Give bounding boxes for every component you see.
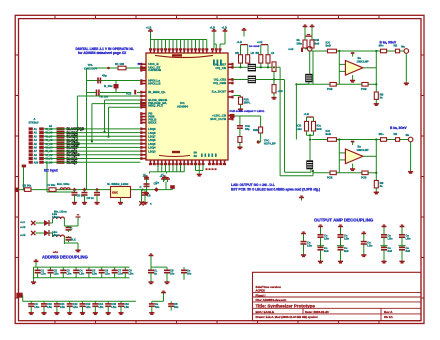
- svg-text:LB 30z: LB 30z: [23, 183, 32, 187]
- supply symbol row A: [34, 260, 39, 267]
- supply label +Ax: [53, 250, 59, 254]
- svg-text:R2B: R2B: [253, 128, 258, 132]
- svg-text:Full scale output = LBrd.: Full scale output = LBrd.: [230, 109, 265, 113]
- capacitor CB3: [54, 301, 66, 310]
- svg-text:A: A: [34, 117, 36, 121]
- wire: IC analog ground pins: [196, 165, 204, 171]
- IC1 right pin names: [210, 62, 227, 121]
- svg-text:6n8: 6n8: [406, 249, 411, 253]
- resistor R19 on clock rail: [47, 183, 57, 191]
- resistor feedback 1: [327, 171, 336, 179]
- svg-text:10u: 10u: [174, 306, 179, 309]
- capacitor CB4: [67, 301, 79, 310]
- wire: data bus lines to IC: [44, 129, 141, 162]
- svg-text:LBn: LBn: [60, 306, 65, 309]
- svg-text:PCB: PCB: [361, 175, 367, 179]
- title block text fixed: [256, 293, 266, 297]
- resistor feedback 2: [361, 83, 368, 91]
- wire: TP row 1: [87, 67, 141, 69]
- supply symbol DVDD: [222, 26, 228, 34]
- svg-text:BB: BB: [235, 52, 239, 55]
- pin: supply входа row B: [16, 293, 22, 298]
- svg-text:for AD9854 datasheet page XX: for AD9854 datasheet page XX: [78, 51, 127, 55]
- capacitor decoupling lower: [338, 246, 350, 259]
- wire: row 2 reference: [87, 80, 141, 82]
- wire: regulator rail top: [35, 219, 52, 223]
- wire: decoupling mid link: [337, 245, 344, 247]
- wire: ground rail stub left: [150, 172, 167, 174]
- wire: top supply rail to IC top pins: [151, 34, 207, 48]
- capacitor decoupling single: [301, 240, 313, 252]
- svg-text:Ma: Ma: [406, 134, 410, 137]
- resistor at output pad: [394, 43, 400, 52]
- svg-text:LBn: LBn: [67, 272, 72, 275]
- svg-text:BUF_CLTB: BUF_CLTB: [210, 117, 227, 121]
- ground decoupling column: [399, 259, 404, 263]
- resistor series input: [326, 129, 337, 141]
- ground decoupling single: [361, 253, 366, 257]
- resistor network labels: [67, 127, 85, 164]
- resistor R3 series 30R: [23, 183, 32, 191]
- supply stub op-amp: [351, 141, 355, 145]
- capacitor decoupling single: [361, 240, 373, 252]
- resistor feedback 2: [361, 171, 368, 179]
- wire: row 3: [87, 92, 141, 94]
- junction at op-amp input: [338, 138, 377, 140]
- wire: pad ground branch: [408, 142, 413, 173]
- svg-text:39: 39: [194, 154, 198, 158]
- capacitor C2: [97, 90, 109, 99]
- capacitor C11: [66, 236, 77, 242]
- svg-text:LBn: LBn: [388, 237, 393, 241]
- svg-text:RB: RB: [394, 132, 398, 136]
- svg-text:+LB: +LB: [257, 40, 262, 44]
- supply symbol decoupling column: [338, 225, 343, 235]
- supply symbol VCC top-left of IC: [146, 26, 153, 34]
- svg-text:M4+: M4+: [379, 132, 385, 136]
- capacitor CA3: [60, 267, 72, 278]
- ground below CA10: [164, 280, 169, 284]
- capacitor C10: [66, 226, 73, 232]
- wire: IOUT1 to transformer T1: [233, 63, 247, 68]
- supply stub op-amp: [351, 52, 355, 56]
- capacitor CA5: [86, 267, 98, 278]
- wire: data line upper L4: [107, 107, 140, 138]
- capacitor CB8: [118, 301, 130, 310]
- svg-text:OQ_CB: OQ_CB: [215, 66, 227, 70]
- supply symbol decoupling column: [318, 225, 323, 235]
- wire: decoupling mid link: [398, 245, 405, 247]
- capacitor CB9: [149, 301, 160, 310]
- IC1 left pin names: [148, 62, 168, 153]
- ground decoupling single: [301, 253, 306, 257]
- svg-text:10u: 10u: [170, 272, 175, 275]
- wire: clock rail: [19, 189, 172, 191]
- pin pad VOUT2: [230, 114, 261, 126]
- svg-text:LBQ5: LBQ5: [148, 142, 156, 146]
- wire: regulator rail mid: [35, 217, 78, 248]
- title block text drawn row: [256, 315, 318, 319]
- blue output label: [390, 126, 408, 130]
- wire: R16/R17 join to rail: [307, 131, 314, 160]
- svg-text:10u: 10u: [187, 272, 192, 275]
- capacitor decoupling upper: [399, 234, 411, 248]
- capacitor CA8: [122, 267, 134, 278]
- capacitor C1 43p: [98, 73, 107, 83]
- svg-text:+Lx: +Lx: [20, 220, 25, 224]
- blue attribute mark at row1 pin: [138, 63, 141, 65]
- svg-text:LBQ7: LBQ7: [148, 135, 156, 139]
- svg-text:LBn: LBn: [111, 306, 116, 309]
- capacitor C6 to ground: [82, 190, 95, 201]
- wire: data line upper L1: [76, 96, 140, 147]
- svg-text:CJPMUB: CJPMUB: [148, 68, 162, 72]
- svg-text:LBx: LBx: [297, 127, 303, 131]
- capacitor C7 to ground: [94, 190, 100, 201]
- wire: decoupling mid link: [380, 245, 387, 247]
- wire: bus drop to clock rail left: [22, 165, 26, 191]
- wire: op-amp input rail: [312, 139, 409, 141]
- svg-text:LBn: LBn: [124, 306, 129, 309]
- transformer T1: [248, 64, 256, 72]
- svg-text:LBQ3: LBQ3: [148, 149, 156, 153]
- svg-text:ADDR53 DECOUPLING: ADDR53 DECOUPLING: [42, 255, 88, 260]
- heading OUTPUT AMP DECOUPLING: [314, 218, 374, 223]
- wire: pad to transformer T4: [309, 51, 311, 74]
- svg-text:Ma: Ma: [401, 45, 405, 48]
- ground below CA9: [148, 280, 153, 284]
- svg-text:BB: BB: [256, 52, 260, 55]
- capacitor CA1: [35, 267, 47, 278]
- wire: op-amp output: [363, 140, 376, 181]
- svg-text:LBn: LBn: [41, 272, 46, 275]
- resistor R7: [266, 52, 274, 63]
- svg-text:6n8: 6n8: [324, 249, 329, 253]
- svg-text:LAB: OUTPUT GO = 24t - D-L: LAB: OUTPUT GO = 24t - D-L: [231, 183, 275, 187]
- supply symbol decoupling column short: [301, 232, 306, 242]
- spare pin marks row: [206, 168, 217, 170]
- IC1 top pin stubs: [149, 48, 222, 53]
- svg-text:+LB: +LB: [278, 89, 283, 93]
- title block text file: [256, 298, 287, 302]
- svg-text:LBn: LBn: [73, 306, 78, 309]
- testpoint X1: [139, 201, 152, 205]
- capacitor decoupling upper: [381, 234, 393, 248]
- svg-text:43p: 43p: [102, 73, 107, 77]
- wire: AVDD pins to supply: [214, 34, 225, 48]
- svg-text:+LB: +LB: [20, 225, 25, 229]
- wire: T2 secondary down: [256, 80, 285, 173]
- resistor R6: [256, 52, 263, 63]
- resistor R5: [246, 52, 254, 63]
- wire: T1 secondary to filter: [256, 63, 280, 176]
- svg-text:MBQ_PLX: MBQ_PLX: [148, 103, 163, 107]
- IC1 bottom pin stubs: [149, 160, 226, 165]
- capacitor CB7: [105, 301, 117, 310]
- svg-text:LBn: LBn: [324, 237, 329, 241]
- testpoint label TP1: [84, 63, 98, 70]
- IC1 left pin stubs: [140, 63, 146, 160]
- wire: IC ground pins to ground rail: [158, 165, 184, 172]
- IC1 bottom inside pin numbers: [194, 151, 217, 159]
- svg-text:2n: 2n: [154, 272, 157, 275]
- title block text title: [256, 303, 316, 308]
- svg-text:LBQ8: LBQ8: [148, 131, 156, 135]
- capacitor CB5: [80, 301, 92, 310]
- svg-text:C: C: [140, 185, 142, 189]
- wire name labels at connector: [46, 128, 54, 164]
- svg-text:Title: Synthesizer Prototype: Title: Synthesizer Prototype: [256, 303, 316, 308]
- svg-text:B ka, 3GeV: B ka, 3GeV: [390, 126, 408, 130]
- svg-text:+LB: +LB: [288, 47, 293, 51]
- IC1 designator label: [177, 101, 188, 108]
- note: output spec note line1 (blue): [231, 183, 275, 187]
- svg-text:LBn: LBn: [129, 272, 134, 275]
- polarized capacitor C9 on clock rail: [154, 182, 159, 192]
- transformer T2: [248, 76, 256, 84]
- svg-text:+LB: +LB: [146, 26, 151, 30]
- junction on row 1: [107, 67, 110, 70]
- svg-text:LBn: LBn: [406, 237, 411, 241]
- junction clock node 1: [73, 188, 77, 192]
- svg-text:OQ_CBB: OQ_CBB: [213, 81, 227, 85]
- capacitor C12: [140, 184, 150, 191]
- capacitor CB2: [41, 301, 53, 310]
- connector J1 header: [29, 117, 53, 164]
- svg-text:LBn: LBn: [34, 306, 39, 309]
- junction clock node 4: [141, 189, 143, 191]
- transformer T4: [305, 74, 312, 83]
- svg-text:I2C input: I2C input: [44, 169, 59, 173]
- svg-text:BnB: BnB: [326, 43, 331, 47]
- svg-text:+Ax: +Ax: [53, 250, 59, 254]
- ground above regulator: [76, 215, 81, 217]
- wire: T3 bottom connections: [280, 169, 314, 176]
- capacitor CA10: [164, 267, 175, 280]
- resistor R4: [235, 52, 242, 63]
- inductor L1 100uH: [57, 182, 70, 189]
- ground below regulator: [75, 248, 80, 252]
- resistor load to ground: [374, 92, 383, 102]
- inductor L3 100uH: [52, 230, 64, 237]
- ground below CB8: [118, 311, 123, 315]
- note: I2C input label: [44, 169, 59, 173]
- svg-text:+LB: +LB: [20, 233, 25, 237]
- svg-text:HPDLLB: HPDLLB: [148, 82, 161, 86]
- ground decoupling column: [318, 259, 323, 263]
- wire: left vertical rail: [86, 68, 88, 190]
- ground below load resistor: [374, 190, 379, 194]
- svg-text:OSC: OSC: [112, 191, 118, 195]
- svg-text:LBn: LBn: [79, 272, 84, 275]
- svg-text:LBn: LBn: [54, 272, 59, 275]
- wire: VOUT pin with resistor R13: [233, 96, 240, 98]
- svg-text:C6 1n: C6 1n: [87, 196, 95, 200]
- svg-text:HCF-LBP: HCF-LBP: [264, 142, 276, 146]
- resistor R16: [305, 121, 309, 131]
- resistor R14: [238, 137, 242, 146]
- supply symbol above R10: [303, 25, 308, 29]
- svg-text:PCB: PCB: [361, 87, 367, 91]
- svg-text:+LB: +LB: [237, 40, 242, 44]
- svg-text:IB_BBB_QL: IB_BBB_QL: [148, 90, 165, 94]
- resistor R13 200R: [239, 97, 251, 107]
- title block text rev: [384, 310, 393, 319]
- capacitor decoupling lower: [318, 246, 330, 259]
- svg-text:BAL 100u: BAL 100u: [57, 182, 70, 186]
- ground below CB7: [106, 311, 111, 315]
- ground below CB4: [67, 311, 72, 315]
- svg-text:10u: 10u: [155, 306, 160, 309]
- supply symbol R6 pull-up pair: [257, 40, 268, 55]
- ground symbol below IC right group: [197, 171, 202, 176]
- op-amp U amplifier: [345, 56, 368, 75]
- svg-text:BST PCB: 50 O LBLB2 tant 0.0BB: BST PCB: 50 O LBLB2 tant 0.0BBb apwa mxd…: [231, 187, 320, 191]
- ground below C7: [94, 200, 99, 204]
- capacitor C8 to ground: [142, 190, 151, 201]
- supply symbol for oscillator 1: [143, 174, 149, 182]
- svg-text:CAC_OUT: CAC_OUT: [84, 66, 98, 70]
- IC1 top-right inside pin numbers: [213, 60, 222, 66]
- ground below load resistor: [374, 102, 379, 106]
- svg-text:Date: 2003-01-23: Date: 2003-01-23: [305, 310, 329, 314]
- diode D2: [44, 230, 49, 236]
- wire: decoupling rail B: [23, 295, 136, 301]
- ferrite bead FB1: [170, 185, 175, 189]
- ground below R13: [238, 107, 243, 111]
- supply symbol above decoupling: [299, 196, 304, 200]
- svg-text:XL 40MHz_LBRd: XL 40MHz_LBRd: [107, 182, 129, 186]
- ground below C8: [142, 200, 147, 204]
- svg-text:+LB: +LB: [304, 112, 309, 116]
- wire: data line upper L2: [103, 100, 140, 133]
- svg-text:PCB: PCB: [327, 87, 333, 91]
- ground below C6: [82, 200, 87, 204]
- svg-text:LBnn: LBnn: [52, 215, 59, 219]
- svg-text:Cx: Cx: [156, 181, 160, 185]
- supply symbol for oscillator 2: [160, 174, 170, 182]
- capacitor C13 33p: [237, 124, 251, 137]
- svg-text:STK5x3: STK5x3: [29, 121, 39, 125]
- ground below CB2: [41, 311, 46, 315]
- svg-text:+LB: +LB: [222, 26, 227, 30]
- wire: decoupling rail A top: [34, 266, 130, 268]
- IC1 right pin stubs: [228, 63, 234, 121]
- capacitor CA6: [99, 267, 111, 278]
- svg-text:TB 100: TB 100: [99, 95, 109, 99]
- heading ADDR DECOUPLING: [42, 255, 88, 260]
- supply label +LB on row 3: [126, 90, 136, 96]
- ground below CB3: [54, 311, 59, 315]
- svg-text:LBn: LBn: [307, 243, 312, 247]
- ground below C12: [144, 191, 149, 195]
- supply labels for regulator circuit: [20, 220, 25, 237]
- svg-text:LBn: LBn: [92, 272, 97, 275]
- wire: op-amp output: [363, 51, 376, 92]
- resistor R11: [310, 36, 314, 48]
- note: output spec note line2 (blue): [231, 187, 320, 191]
- resistor R15: [253, 116, 263, 139]
- svg-text:LBn: LBn: [47, 306, 52, 309]
- note: full-scale output (blue): [230, 109, 265, 113]
- svg-text:13BCLMP: 13BCLMP: [357, 59, 369, 63]
- svg-text:Rev A: Rev A: [384, 310, 393, 314]
- supply label +LB near pad: [288, 47, 303, 52]
- supply symbol decoupling column: [382, 225, 387, 235]
- svg-text:AD9854: AD9854: [177, 105, 188, 109]
- svg-text:DBa: DBa: [297, 41, 303, 45]
- wire: connector to clock rail: [47, 162, 75, 192]
- ground below oscillator: [118, 198, 123, 205]
- svg-text:LBn: LBn: [105, 272, 110, 275]
- resistor output series: [379, 132, 387, 141]
- supply symbol row A right pair: [149, 254, 167, 267]
- svg-text:BEXX: BEXX: [148, 121, 156, 125]
- ground below R14: [237, 145, 242, 149]
- capacitor CA2: [48, 267, 60, 278]
- svg-text:LBnn: LBnn: [52, 233, 59, 237]
- ground op-amp: [350, 75, 355, 82]
- ground below CB5: [80, 311, 85, 315]
- ground below C5: [72, 200, 77, 204]
- transformer T3: [306, 160, 313, 169]
- svg-text:LBn: LBn: [99, 306, 104, 309]
- svg-text:Sda/Time version: Sda/Time version: [256, 285, 282, 289]
- oscillator Q1 module: [107, 182, 131, 197]
- testpoint pad TP2: [257, 139, 276, 146]
- svg-text:13BCLMP: 13BCLMP: [357, 148, 369, 152]
- ground decoupling column: [381, 259, 386, 263]
- resistor network RN1 blocks: [57, 127, 65, 164]
- title block text date/time: [256, 285, 282, 292]
- output connector pad: [406, 134, 413, 142]
- svg-text:B ka, 3GeV: B ka, 3GeV: [380, 41, 398, 45]
- ground below R9: [271, 93, 276, 99]
- ground op-amp: [350, 164, 355, 171]
- resistor R9 termination: [272, 80, 283, 94]
- capacitor CA4: [73, 267, 85, 278]
- supply symbol above R11: [310, 25, 315, 29]
- svg-text:ACPES: ACPES: [256, 289, 265, 293]
- svg-text:6n8: 6n8: [344, 249, 349, 253]
- svg-text:EDA: EAGLE: EDA: EAGLE: [256, 310, 275, 314]
- svg-text:+L: +L: [161, 173, 165, 177]
- wire: decoupling rail A bottom: [34, 277, 130, 279]
- resistor series input: [326, 41, 337, 53]
- diode D1: [44, 220, 49, 226]
- resistor load to ground: [374, 181, 383, 191]
- svg-text:BnB: BnB: [326, 132, 331, 136]
- resistor output series: [379, 43, 387, 52]
- svg-text:33p: 33p: [245, 127, 250, 131]
- supply symbol output bias: [297, 30, 320, 46]
- capacitor CA7: [112, 267, 124, 278]
- title block outline: [253, 272, 422, 320]
- junction clock node 3: [95, 188, 99, 192]
- net label Mn below clock row: [54, 210, 67, 214]
- note: wiring instruction text (blue): [76, 47, 134, 55]
- svg-text:PCB: PCB: [327, 175, 333, 179]
- testpoint X2: [31, 221, 35, 225]
- svg-text:LBQ4: LBQ4: [148, 146, 156, 150]
- supply symbol lower filter: [297, 112, 322, 131]
- testpoint X3: [31, 231, 35, 235]
- supply symbol below IC 2: [156, 173, 167, 185]
- svg-text:6n8: 6n8: [388, 249, 393, 253]
- capacitor CB1: [28, 301, 40, 310]
- capacitor CA9: [148, 267, 158, 280]
- svg-text:BrB: BrB: [317, 127, 322, 131]
